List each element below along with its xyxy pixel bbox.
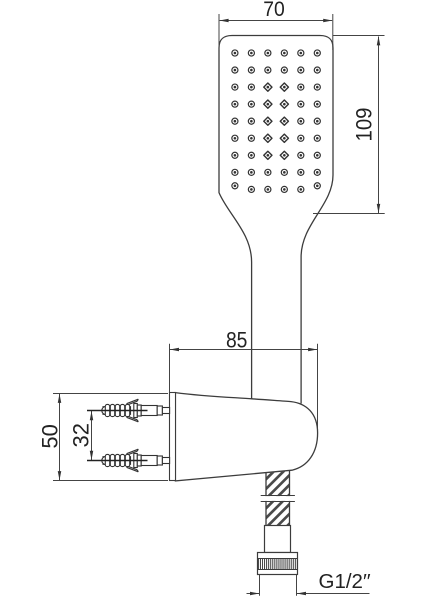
svg-text:50: 50 (38, 424, 63, 448)
svg-text:G1/2′′: G1/2′′ (319, 570, 371, 593)
svg-text:70: 70 (263, 0, 285, 21)
svg-text:109: 109 (352, 108, 377, 142)
svg-text:32: 32 (68, 423, 93, 447)
svg-text:85: 85 (226, 328, 248, 353)
